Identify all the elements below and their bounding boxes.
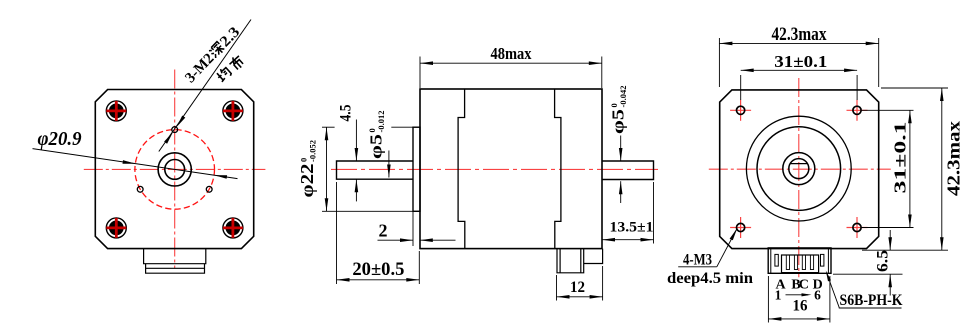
right view: PH connector housing [768,248,831,273]
svg-text:2: 2 [379,221,388,241]
right view: mounting hole bottom-right [847,217,868,238]
svg-text:13.5±1: 13.5±1 [610,220,654,236]
left view: shaft circle [165,160,185,180]
dimension 31±0.1 (top) [741,52,857,100]
label 3-M2 depth 2.3 (rotated) [182,24,245,86]
svg-text:42.3max: 42.3max [944,121,964,196]
svg-text:31±0.1: 31±0.1 [774,52,827,71]
dimension 16 (connector width) [768,276,830,323]
left view: mounting screw bottom-left [106,218,126,238]
middle view: left lamination step line [458,89,465,249]
right view: mounting hole top-right [847,100,868,121]
middle view: red shaft centerline [331,168,658,170]
dimension 48max [420,44,602,88]
right view: motor body outline (chamfered square) [720,90,879,249]
right view: end bell circle [746,116,851,221]
svg-text:1: 1 [775,288,782,303]
middle view: motor body rectangle [420,89,602,249]
right view: pilot boss circle [757,127,841,211]
svg-text:φ5: φ5 [367,134,386,159]
svg-text:16: 16 [793,298,808,315]
dimension 20±0.5 [337,182,420,284]
dimension 31±0.1 (right side, vertical) [862,110,914,227]
left view: rear connector seen below body [144,249,206,274]
left view: motor body outline (chamfered square) [95,90,253,249]
dimension 42.3max (right side, vertical) [862,88,964,250]
right view: red vertical centerline [798,78,800,277]
svg-text:deep4.5 min: deep4.5 min [667,270,753,287]
svg-text:42.3max: 42.3max [772,25,828,45]
dimension 4.5 (shaft flat) [338,104,359,201]
svg-text:48max: 48max [491,44,532,63]
svg-text:20±0.5: 20±0.5 [352,259,404,280]
dimension phi22 0/-0.052 [297,127,420,246]
dimension 2 (boss thickness) [378,221,456,243]
leader line for 3-M2 holes [159,20,251,152]
dimension 12 (connector width side view) [557,266,603,301]
left view: red vertical centerline [174,70,176,269]
svg-text:4-M3: 4-M3 [683,252,712,269]
left view: pilot boss circle [158,153,191,186]
label 4-M3 deep4.5 min with leader [667,228,753,287]
dimension text phi20.9 [38,128,82,150]
svg-text:C: C [799,278,809,293]
left view: mounting screw top-right [223,101,243,121]
svg-text:-0.012: -0.012 [376,111,386,133]
dimension leader phi20.9 [33,149,238,179]
right view: mounting hole bottom-left [730,217,751,238]
dimension 42.3max (top) [719,25,878,87]
right view: mounting hole top-left [730,100,751,121]
dimension 13.5±1 [602,182,654,244]
middle view: pilot boss [413,127,420,211]
dimension 6.5 (connector height) [833,230,903,296]
left view: mounting screw bottom-right [223,218,243,238]
middle view: rear connector side profile [557,249,603,273]
left view: M2 hole top [172,127,178,133]
left view: mounting screw top-left [106,101,126,121]
svg-text:6.5: 6.5 [875,250,892,272]
svg-text:31±0.1: 31±0.1 [891,122,910,194]
right view: red horizontal centerline [709,168,891,170]
svg-text:4.5: 4.5 [338,104,355,121]
left view: bolt circle (red dashed) [135,130,215,210]
svg-text:12: 12 [570,279,585,296]
svg-text:6: 6 [814,288,821,303]
svg-text:-0.052: -0.052 [308,140,318,162]
right view: bearing hub circle [783,153,815,185]
svg-text:3-M2: 3-M2 [182,51,217,87]
svg-text:-0.042: -0.042 [618,86,628,108]
dimension phi5 0/-0.042 (rear shaft) [609,86,629,203]
dimension phi5 0/-0.012 (front shaft) [367,111,391,178]
svg-text:φ5: φ5 [609,109,628,134]
label S6B-PH-K with leader [826,271,903,310]
svg-text:S6B-PH-K: S6B-PH-K [840,292,903,309]
right view: shaft circle with flat [789,159,809,179]
svg-text:φ20.9: φ20.9 [38,128,82,150]
pin labels A B C D [775,278,822,293]
svg-text:φ22: φ22 [297,164,317,198]
middle view: rear shaft [602,161,654,180]
left view: M2 hole lower-left [137,186,143,192]
middle view: right lamination step line [555,89,561,249]
left view: M2 hole lower-right [206,186,212,192]
middle view: front shaft [337,161,414,179]
left view: red horizontal centerline [84,168,266,170]
pin numbers 1 to 6 with arrow [775,288,822,303]
